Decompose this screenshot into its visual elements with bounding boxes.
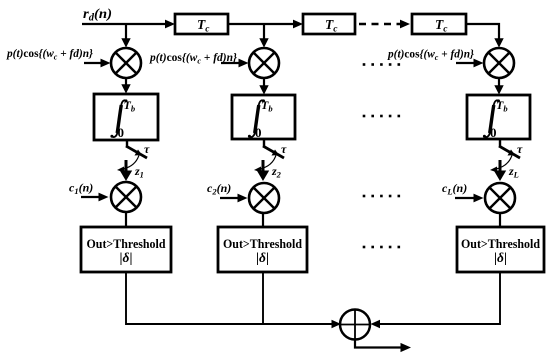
block Tc3 xyxy=(412,14,466,34)
svg-text:zL: zL xyxy=(508,164,519,180)
multiplier X2 xyxy=(249,48,279,78)
wire c2 arrow into multiplier 5 xyxy=(220,197,239,199)
wire main input to Tc1 xyxy=(82,23,167,25)
adder sum xyxy=(340,310,370,340)
svg-text:z1: z1 xyxy=(134,164,144,180)
multiplier X6 xyxy=(485,183,515,213)
block integrator 3 xyxy=(467,95,530,139)
wire threshold 1 down to bus xyxy=(126,272,333,324)
wire multiplier 3 to integrator 3 xyxy=(498,78,500,87)
multiplier X5 xyxy=(249,183,279,213)
svg-text:|δ|: |δ| xyxy=(494,250,507,265)
dots row 4 xyxy=(363,246,400,249)
svg-text:p(t)cos{(wc + fd)n}: p(t)cos{(wc + fd)n} xyxy=(387,47,475,63)
svg-text:Tb: Tb xyxy=(496,98,508,114)
wire threshold 3 down to bus xyxy=(378,272,500,324)
wire p(t) arrow into multiplier 2 xyxy=(221,62,240,64)
svg-text:rd(n): rd(n) xyxy=(83,7,112,24)
svg-text:τ: τ xyxy=(281,142,287,156)
block integrator 1 xyxy=(94,94,158,140)
wire c1 arrow into multiplier 4 xyxy=(81,196,100,198)
svg-text:Out>Threshold: Out>Threshold xyxy=(223,236,303,251)
wire p(t) arrow into multiplier 3 xyxy=(456,62,475,64)
dots row 3 xyxy=(363,195,400,198)
multiplier X3 xyxy=(484,48,514,78)
wire output xyxy=(355,340,402,348)
wire multiplier 4 to threshold 1 xyxy=(125,212,127,227)
multiplier X4 xyxy=(111,182,141,212)
svg-text:c2(n): c2(n) xyxy=(207,181,231,197)
svg-text:τ: τ xyxy=(144,142,150,156)
wire dashed Tc2 to Tc3 xyxy=(359,23,401,26)
svg-text:Tb: Tb xyxy=(124,98,136,114)
wire multiplier 6 to threshold 3 xyxy=(499,213,501,227)
wire Tc3 to branch 3 down xyxy=(466,24,499,40)
svg-text:0: 0 xyxy=(255,125,262,140)
svg-text:|δ|: |δ| xyxy=(120,250,133,265)
wire multiplier 1 to integrator 1 xyxy=(125,78,127,86)
svg-text:Tb: Tb xyxy=(261,98,273,114)
block Tc2 xyxy=(303,14,355,34)
dots row 1 xyxy=(363,63,400,66)
wire threshold 2 down to bus xyxy=(262,272,264,324)
svg-text:c1(n): c1(n) xyxy=(69,181,93,197)
wire Tc1 to Tc2 xyxy=(228,23,295,25)
svg-text:Out>Threshold: Out>Threshold xyxy=(461,236,541,251)
svg-text:0: 0 xyxy=(490,125,497,140)
svg-text:Out>Threshold: Out>Threshold xyxy=(87,236,167,251)
sampler switch 3 xyxy=(490,139,523,181)
block threshold 2 xyxy=(218,227,307,272)
svg-text:τ: τ xyxy=(517,142,523,156)
svg-text:cL(n): cL(n) xyxy=(442,181,467,197)
svg-text:Tc: Tc xyxy=(325,17,338,35)
wire junction branch 2 down xyxy=(263,24,265,40)
svg-text:0: 0 xyxy=(118,125,125,140)
wire cL arrow into multiplier 6 xyxy=(455,197,474,199)
block integrator 2 xyxy=(232,95,295,139)
svg-text:Tc: Tc xyxy=(435,17,448,35)
dots row 2 xyxy=(363,115,400,118)
wire p(t) arrow into multiplier 1 xyxy=(84,62,103,64)
block threshold 3 xyxy=(457,227,544,272)
wire multiplier 5 to threshold 2 xyxy=(262,213,264,227)
svg-text:|δ|: |δ| xyxy=(256,250,269,265)
sampler switch 2 xyxy=(254,139,287,181)
wire junction branch 1 down xyxy=(125,24,127,40)
block threshold 1 xyxy=(81,227,171,272)
sampler switch 1 xyxy=(117,139,150,181)
svg-text:z2: z2 xyxy=(271,164,282,180)
svg-text:Tc: Tc xyxy=(197,17,210,35)
block Tc1 xyxy=(175,14,228,34)
wire multiplier 2 to integrator 2 xyxy=(263,78,265,87)
svg-text:p(t)cos{(wc + fd)n}: p(t)cos{(wc + fd)n} xyxy=(6,46,94,62)
multiplier X1 xyxy=(111,48,141,78)
